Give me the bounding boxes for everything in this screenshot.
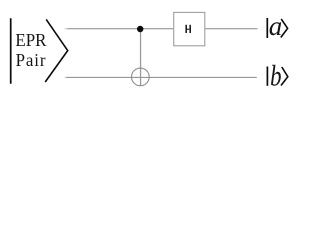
svg-text:Pair: Pair xyxy=(16,49,47,70)
gate H box xyxy=(174,12,205,45)
ket angle bracket of |EPR Pair> xyxy=(45,19,67,82)
CNOT target circle xyxy=(132,68,150,86)
svg-text:a: a xyxy=(269,11,283,41)
gate H label xyxy=(185,25,191,33)
svg-text:b: b xyxy=(270,59,281,93)
output ket |a> bar xyxy=(266,18,268,38)
svg-text:EPR: EPR xyxy=(15,29,46,50)
output ket letter b xyxy=(270,59,281,93)
label Pair xyxy=(16,49,47,70)
wire: bottom qubit xyxy=(64,76,257,78)
output ket |b> angle xyxy=(281,67,288,86)
wire: CNOT vertical link xyxy=(140,29,142,86)
label EPR xyxy=(15,29,46,50)
CNOT control dot xyxy=(137,26,144,33)
wire: top qubit, chevron to H gate xyxy=(64,28,174,30)
ket bar of |EPR Pair> xyxy=(10,18,12,83)
wire: top qubit, H gate to output xyxy=(205,28,257,30)
output ket |b> bar xyxy=(266,67,268,86)
output ket |a> angle xyxy=(281,19,288,38)
